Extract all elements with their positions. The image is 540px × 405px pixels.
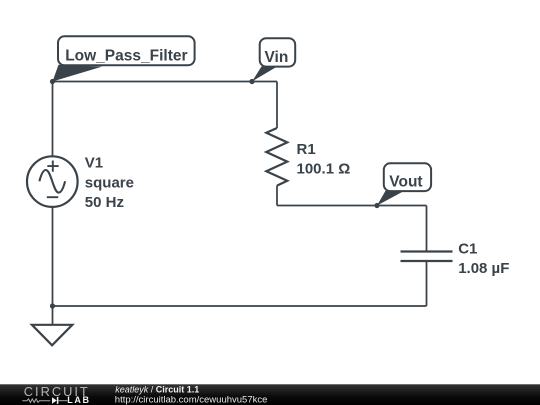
label V1 value text bbox=[85, 155, 134, 212]
wire: ground stub bbox=[52, 306, 54, 325]
net flag Low_Pass_Filter bbox=[53, 36, 195, 81]
svg-text:C1: C1 bbox=[458, 241, 477, 258]
svg-text:R1: R1 bbox=[297, 141, 316, 158]
wire: top horizontal net from node A to R1 top bbox=[53, 81, 278, 83]
wire: C1 top lead vertical bbox=[426, 206, 428, 252]
wire: R1 top lead vertical bbox=[276, 82, 278, 129]
footer bar bbox=[0, 384, 540, 405]
node dot A (top-left) bbox=[50, 79, 55, 84]
logo diode bbox=[52, 397, 57, 404]
svg-text:square: square bbox=[85, 174, 134, 191]
net flag Vin bbox=[252, 38, 295, 81]
svg-text:100.1 Ω: 100.1 Ω bbox=[297, 160, 351, 177]
node dot Vin bbox=[249, 79, 254, 84]
label C1 value text bbox=[458, 241, 509, 277]
node dot Vout bbox=[374, 203, 379, 208]
wire: R1 bottom lead vertical bbox=[276, 186, 278, 206]
svg-text:Vout: Vout bbox=[389, 174, 422, 191]
svg-text:keatleyk / Circuit 1.1: keatleyk / Circuit 1.1 bbox=[115, 384, 199, 394]
node junction bottom-left bbox=[50, 303, 55, 308]
capacitor C1 bbox=[401, 252, 453, 262]
svg-text:http://circuitlab.com/cewuuhvu: http://circuitlab.com/cewuuhvu57kce bbox=[115, 395, 268, 405]
logo resistor squiggle bbox=[22, 399, 50, 403]
svg-text:Low_Pass_Filter: Low_Pass_Filter bbox=[65, 48, 187, 65]
wire: bottom horizontal return net bbox=[53, 305, 427, 307]
svg-text:50 Hz: 50 Hz bbox=[85, 194, 124, 211]
wire: C1 bottom lead vertical bbox=[426, 261, 428, 306]
wire: V1 top lead vertical bbox=[52, 82, 54, 157]
wire: V1 bottom lead vertical bbox=[52, 207, 54, 306]
svg-text:1.08 µF: 1.08 µF bbox=[458, 260, 509, 277]
voltage source V1 bbox=[27, 156, 78, 207]
resistor R1 bbox=[266, 128, 287, 186]
ground symbol bbox=[32, 325, 72, 346]
label R1 value text bbox=[297, 141, 351, 177]
svg-text:Vin: Vin bbox=[265, 49, 289, 66]
net flag Vout bbox=[377, 163, 431, 205]
svg-text:LAB: LAB bbox=[67, 395, 90, 405]
wire: middle horizontal from R1 to C1 branch bbox=[277, 205, 427, 207]
svg-text:V1: V1 bbox=[85, 155, 103, 172]
